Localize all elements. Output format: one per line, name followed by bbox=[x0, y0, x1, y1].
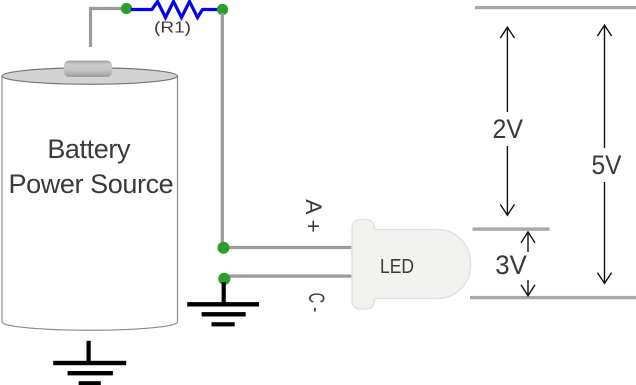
voltage reference middle line bbox=[473, 227, 550, 230]
svg-text:C -: C - bbox=[304, 293, 329, 313]
dimension arrow 2V bbox=[500, 27, 514, 215]
node junction dot (cathode) bbox=[218, 273, 230, 285]
svg-text:A +: A + bbox=[301, 199, 326, 233]
dimension arrow 5V bbox=[597, 25, 611, 283]
svg-text:Power Source: Power Source bbox=[9, 169, 174, 199]
svg-text:5V: 5V bbox=[592, 150, 622, 180]
wire from R1 down to LED anode bbox=[221, 13, 224, 246]
ground (LED cathode) bbox=[187, 282, 259, 326]
wire from battery terminal to resistor bbox=[91, 9, 127, 48]
svg-text:3V: 3V bbox=[495, 250, 527, 280]
battery body (cylinder) bbox=[2, 76, 178, 330]
svg-text:Battery: Battery bbox=[47, 134, 131, 164]
LED D1 body bbox=[352, 220, 471, 310]
battery top ellipse bbox=[2, 68, 178, 85]
svg-text:(R1): (R1) bbox=[154, 20, 191, 37]
svg-text:LED: LED bbox=[380, 256, 414, 278]
svg-text:2V: 2V bbox=[493, 114, 524, 144]
resistor R1 bbox=[131, 2, 218, 18]
node junction dot (battery to R1) bbox=[121, 3, 132, 14]
wire anode to LED bbox=[224, 246, 355, 249]
battery positive terminal nub bbox=[64, 61, 112, 78]
wire cathode to LED bbox=[225, 275, 355, 278]
voltage reference bottom line bbox=[470, 296, 636, 299]
node junction dot (R1 to wire down) bbox=[217, 4, 228, 15]
node junction dot (anode) bbox=[218, 242, 230, 254]
dimension arrow 3V bbox=[521, 232, 535, 296]
ground (battery) bbox=[53, 341, 126, 385]
voltage reference top line bbox=[475, 6, 636, 9]
